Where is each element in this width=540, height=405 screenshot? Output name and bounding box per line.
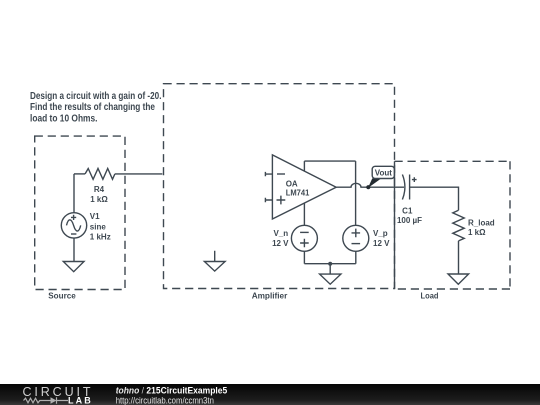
svg-text:V_n: V_n xyxy=(273,229,288,238)
svg-text:Design a circuit with a gain o: Design a circuit with a gain of -20. xyxy=(30,91,162,102)
node Vout dot xyxy=(366,185,370,189)
wire V_p top vertical xyxy=(355,161,357,225)
wire V_p bottom xyxy=(355,251,357,263)
wire op-amp bottom power pin to V_n xyxy=(303,203,305,225)
label C1 value xyxy=(397,207,422,226)
box Source xyxy=(35,136,125,289)
capacitor C1 curved plate xyxy=(402,175,405,200)
wire R4 to amplifier box xyxy=(115,173,162,175)
svg-text:Load: Load xyxy=(421,290,439,300)
label V_p xyxy=(373,229,390,248)
svg-text:1 kΩ: 1 kΩ xyxy=(468,228,486,237)
source V_p xyxy=(343,225,369,251)
footer bar xyxy=(0,384,540,405)
svg-text:http://circuitlab.com/ccmn3tn: http://circuitlab.com/ccmn3tn xyxy=(116,396,214,405)
op-amp non-inverting input stub xyxy=(265,198,272,202)
op-amp inverting input stub xyxy=(265,172,272,176)
svg-text:1 kHz: 1 kHz xyxy=(90,233,111,242)
svg-text:R_load: R_load xyxy=(468,218,495,227)
svg-text:12 V: 12 V xyxy=(373,239,390,248)
svg-text:Amplifier: Amplifier xyxy=(252,290,288,300)
svg-text:Vout: Vout xyxy=(375,169,393,178)
ground under supplies xyxy=(320,264,341,285)
resistor R4 xyxy=(85,169,115,180)
svg-text:100 µF: 100 µF xyxy=(397,216,422,225)
op-amp minus glyph xyxy=(277,173,285,175)
resistor R_load xyxy=(453,210,464,241)
source V1 xyxy=(61,213,86,238)
svg-text:V1: V1 xyxy=(90,212,100,221)
wire power top horizontal xyxy=(304,160,355,162)
capacitor C1 plus glyph xyxy=(412,177,417,182)
label V_n xyxy=(272,229,289,248)
op-amp plus glyph xyxy=(277,196,286,205)
wire V1 bottom xyxy=(73,238,75,261)
ground under V1 xyxy=(63,262,84,272)
junction dot xyxy=(328,262,332,266)
wire V_n bottom xyxy=(303,251,305,263)
wire bottom horizontal xyxy=(304,263,355,265)
annotation text block xyxy=(30,91,162,124)
label R4 value xyxy=(90,185,108,204)
logo resistor zigzag xyxy=(24,398,51,403)
svg-text:tohno / 215CircuitExample5: tohno / 215CircuitExample5 xyxy=(116,386,227,396)
logo diode xyxy=(51,397,57,403)
svg-text:sine: sine xyxy=(90,222,107,231)
svg-text:LAB: LAB xyxy=(68,395,91,405)
svg-text:Source: Source xyxy=(48,290,76,300)
box Load solid left edge xyxy=(394,161,396,289)
wire op-amp output with hop xyxy=(336,183,404,187)
svg-text:Find the results of changing t: Find the results of changing the xyxy=(30,102,155,113)
wire C1 to R_load corner xyxy=(410,187,459,210)
Vout callout pointer xyxy=(368,178,381,188)
wire V1 to R4 xyxy=(74,173,85,175)
ground standalone in amplifier xyxy=(204,251,225,271)
svg-text:OA: OA xyxy=(286,179,298,188)
box Amplifier xyxy=(164,84,395,289)
Vout callout box xyxy=(372,166,394,178)
op-amp U1 triangle xyxy=(272,155,336,219)
svg-text:1 kΩ: 1 kΩ xyxy=(90,195,108,204)
wire R_load to ground xyxy=(458,241,460,274)
capacitor C1 straight plate xyxy=(409,175,411,200)
label OA LM741 xyxy=(286,179,310,197)
source V_n xyxy=(291,225,317,251)
ground under R_load xyxy=(448,274,469,284)
svg-text:V_p: V_p xyxy=(373,229,388,238)
wire op-amp top power pin xyxy=(303,161,305,171)
svg-text:load to 10 Ohms.: load to 10 Ohms. xyxy=(30,113,98,124)
svg-text:R4: R4 xyxy=(94,185,105,194)
svg-text:12 V: 12 V xyxy=(272,239,289,248)
box Load dashed edges xyxy=(395,161,511,289)
svg-text:LM741: LM741 xyxy=(286,188,310,197)
label R_load value xyxy=(468,218,495,237)
svg-text:C1: C1 xyxy=(402,207,413,216)
label V1 xyxy=(90,212,111,241)
wire V1 top vertical xyxy=(73,174,75,213)
